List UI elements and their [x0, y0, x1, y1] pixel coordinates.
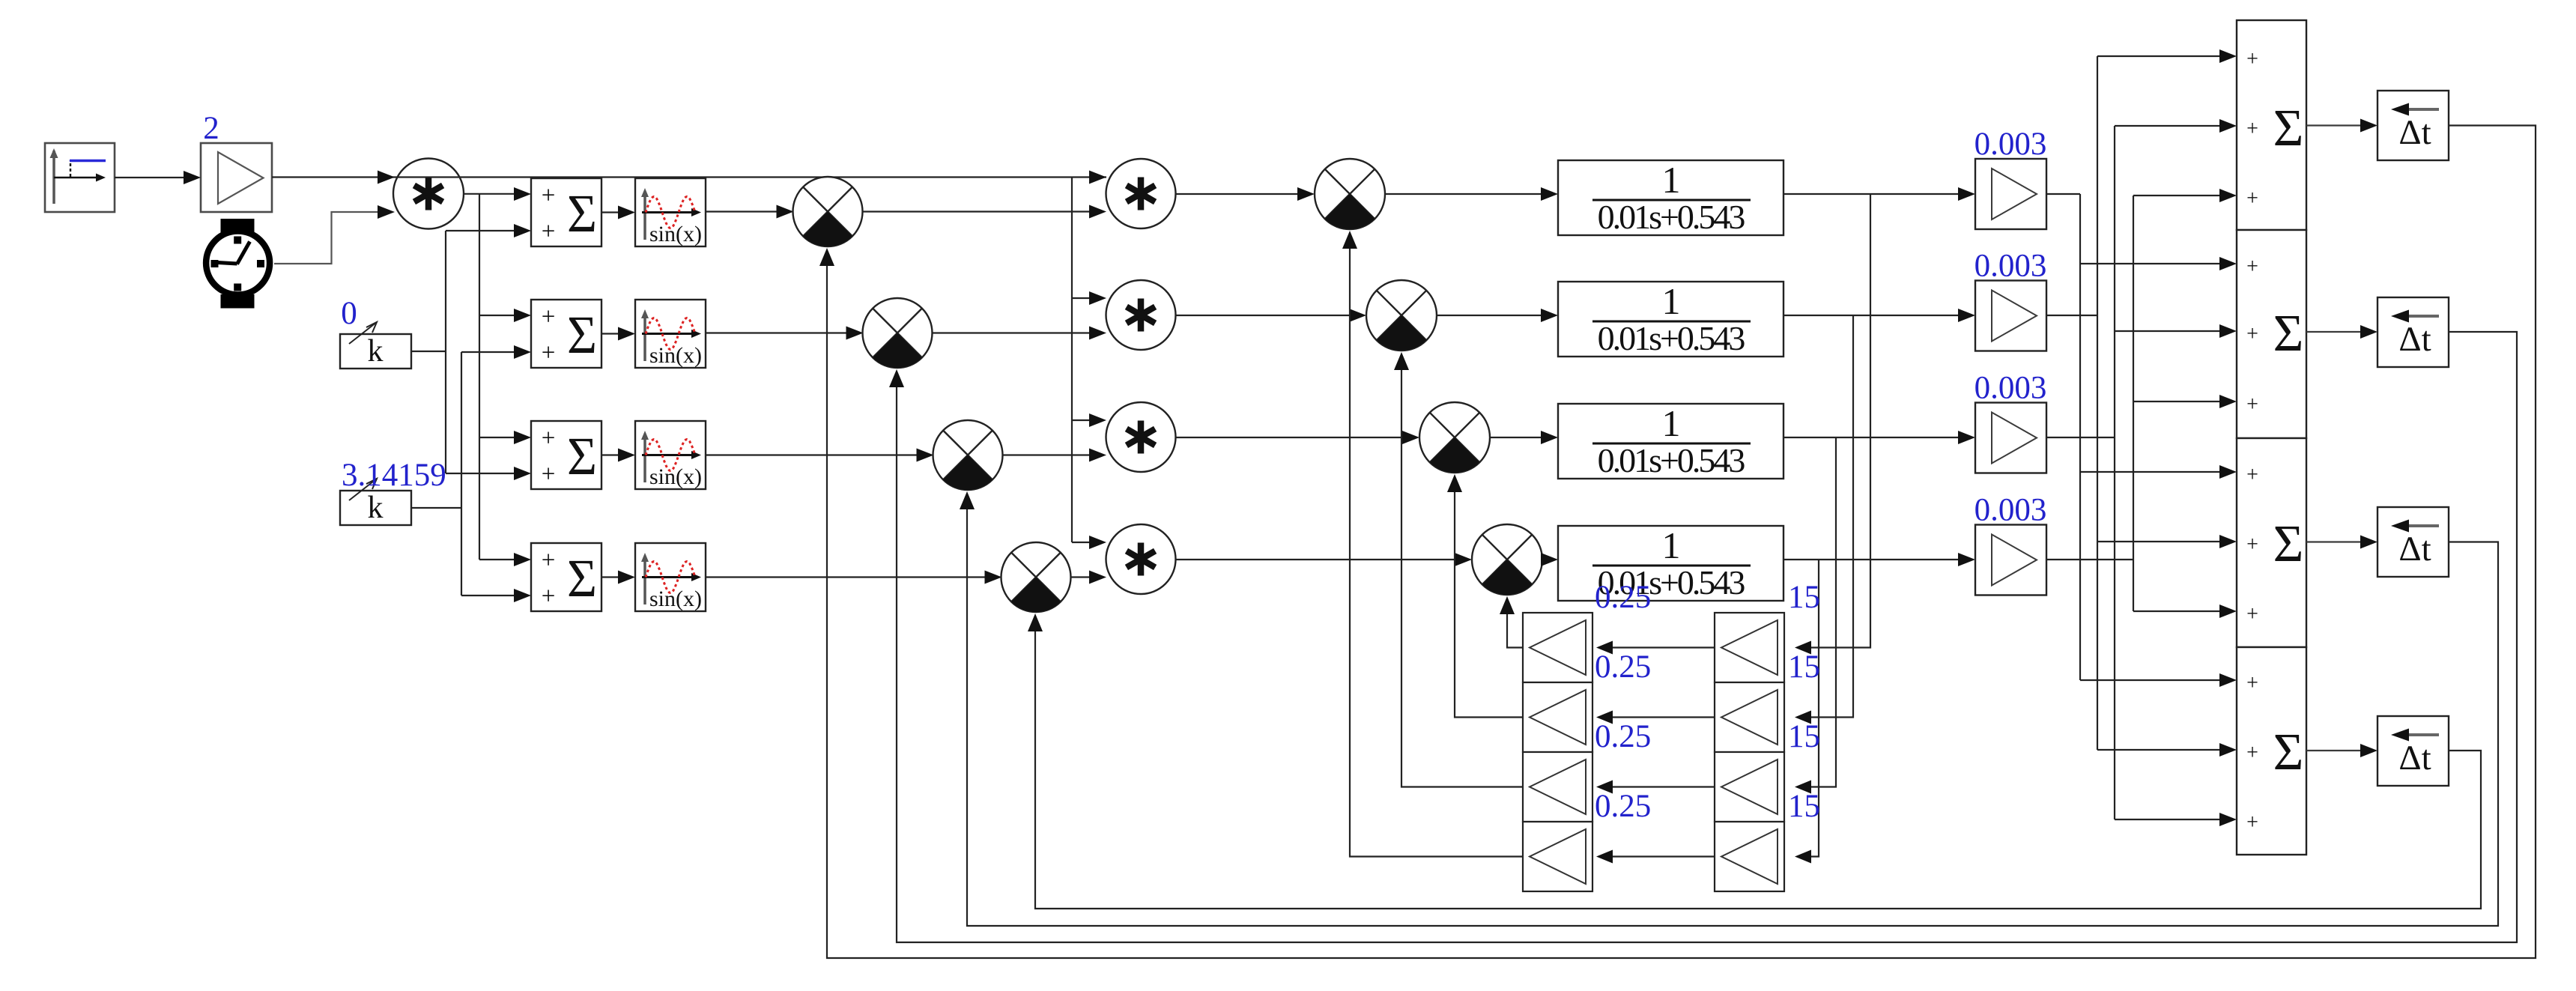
wire K2 constant bus	[411, 224, 531, 480]
delta-t block DT1	[2378, 91, 2449, 160]
svg-text:+: +	[542, 182, 556, 209]
step source block	[45, 143, 115, 212]
wire sine to product P4	[706, 571, 1002, 584]
wire H4 to gain F4	[1596, 850, 1715, 864]
product circle P3	[933, 420, 1003, 490]
svg-text:k: k	[368, 334, 384, 369]
svg-text:+: +	[542, 218, 556, 245]
multiplier circle M1	[1106, 159, 1176, 228]
wire G4 distribution bus	[2046, 189, 2237, 618]
svg-text:0.003: 0.003	[1975, 127, 2047, 162]
wire top bus branches to product circles	[1072, 178, 1106, 550]
wire SS2 to DT2	[2306, 325, 2378, 339]
wire F2 to product Q3	[1447, 474, 1523, 718]
svg-text:+: +	[2246, 118, 2258, 141]
label 0.25 for F4	[1595, 789, 1651, 824]
label 0	[341, 296, 357, 331]
label 3.14159	[342, 458, 446, 493]
wire SS4 to DT4	[2306, 744, 2378, 757]
gain block F4 value 0.25	[1523, 822, 1592, 891]
label 0.25 for F1	[1595, 580, 1651, 615]
label 15 for H4	[1788, 789, 1820, 824]
gain block G2 value 0.003	[1975, 281, 2046, 351]
svg-text:Σ: Σ	[2273, 724, 2304, 781]
svg-text:Σ: Σ	[567, 305, 597, 365]
wire P4 to multiplier M4	[1071, 571, 1107, 584]
wire H2 to gain F2	[1596, 711, 1715, 724]
wire DT4 feedback to P4	[1028, 613, 2481, 909]
svg-text:sin(x): sin(x)	[649, 343, 702, 368]
svg-text:+: +	[2246, 187, 2258, 210]
wire TF1 feedback to gain H1	[1795, 194, 1870, 655]
svg-text:0.01s+0.543: 0.01s+0.543	[1598, 319, 1745, 357]
svg-text:15: 15	[1788, 649, 1820, 685]
wire sine to product P1	[706, 205, 794, 219]
gain block F2 value 0.25	[1523, 682, 1592, 752]
wire F4 to product Q1	[1342, 231, 1523, 857]
sine block SIN4	[635, 543, 706, 611]
product circle P4	[1001, 542, 1071, 612]
gain block G4 value 0.003	[1975, 525, 2046, 595]
label 15 for H2	[1788, 649, 1820, 685]
label 15 for H1	[1788, 580, 1820, 615]
gain block H3 value 15	[1715, 752, 1784, 822]
label 0.25 for F2	[1595, 649, 1651, 685]
svg-text:+: +	[2246, 811, 2258, 834]
label 0.25 for F3	[1595, 719, 1651, 754]
multiplier circle U1	[393, 159, 464, 229]
svg-text:15: 15	[1788, 580, 1820, 615]
svg-text:sin(x): sin(x)	[649, 464, 702, 489]
svg-text:+: +	[2246, 533, 2258, 557]
svg-text:+: +	[2246, 742, 2258, 765]
wire TF4 feedback to gain H4	[1795, 560, 1819, 864]
gain block G1 value 0.003	[1975, 159, 2046, 229]
svg-text:Σ: Σ	[2273, 100, 2304, 157]
wire H3 to gain F3	[1596, 781, 1715, 794]
wire U1 output bus to sum blocks	[464, 187, 531, 566]
wire step to gain	[115, 171, 201, 184]
product circle Q3	[1419, 402, 1490, 473]
wire G2 distribution bus	[2046, 49, 2237, 757]
wire F3 to product Q2	[1394, 352, 1523, 787]
wire SS1 to DT1	[2306, 119, 2378, 133]
svg-text:0: 0	[341, 296, 357, 331]
wire K3 constant bus	[411, 345, 531, 602]
svg-text:Σ: Σ	[567, 548, 597, 608]
svg-text:0.003: 0.003	[1975, 249, 2047, 284]
wire clock to U1	[274, 205, 395, 264]
wire A1 input arrow	[1089, 171, 1106, 184]
big sum block SS2	[2237, 230, 2306, 438]
delta-t block DT2	[2378, 297, 2449, 367]
svg-text:15: 15	[1788, 719, 1820, 754]
label 0.003 for G2	[1975, 249, 2047, 284]
wire G1 distribution bus	[2046, 194, 2237, 687]
svg-text:0.01s+0.543: 0.01s+0.543	[1598, 198, 1745, 236]
wire TF4 to gain G4	[1783, 553, 1975, 566]
big sum block SS1	[2237, 20, 2306, 230]
clock block	[206, 219, 270, 309]
wire TF2 feedback to gain H2	[1795, 315, 1853, 724]
svg-text:0.01s+0.543: 0.01s+0.543	[1598, 441, 1745, 479]
transfer function block TF4	[1558, 524, 1783, 601]
wire S4 to sine	[601, 571, 635, 584]
svg-text:+: +	[2246, 323, 2258, 346]
svg-text:3.14159: 3.14159	[342, 458, 446, 493]
wire SS3 to DT3	[2306, 536, 2378, 549]
transfer function block TF2	[1558, 280, 1783, 357]
svg-text:0.25: 0.25	[1595, 789, 1651, 824]
wire TF2 to gain G2	[1783, 309, 1975, 322]
svg-text:sin(x): sin(x)	[649, 587, 702, 611]
label 0.003 for G3	[1975, 371, 2047, 406]
svg-text:Σ: Σ	[567, 184, 597, 243]
svg-text:0.25: 0.25	[1595, 719, 1651, 754]
svg-text:+: +	[542, 547, 556, 574]
big sum block SS3	[2237, 438, 2306, 647]
svg-text:Δt: Δt	[2398, 739, 2431, 778]
svg-text:+: +	[542, 339, 556, 366]
svg-text:Σ: Σ	[2273, 515, 2304, 573]
svg-text:+: +	[2246, 603, 2258, 626]
svg-text:Σ: Σ	[567, 426, 597, 486]
svg-text:Δt: Δt	[2398, 530, 2431, 569]
wire Q3 to transfer function TF3	[1490, 431, 1558, 444]
svg-text:+: +	[2246, 672, 2258, 695]
svg-text:+: +	[2246, 255, 2258, 279]
sum block S3	[531, 421, 601, 489]
gain block H1 value 15	[1715, 613, 1784, 682]
svg-text:sin(x): sin(x)	[649, 222, 702, 246]
gain block G3 value 0.003	[1975, 403, 2046, 473]
constant block K2 value 0	[340, 322, 411, 369]
big sum block SS4	[2237, 647, 2306, 855]
sine block SIN1	[635, 178, 706, 246]
sum block S2	[531, 300, 601, 368]
product circle Q2	[1366, 280, 1437, 351]
svg-text:1: 1	[1662, 280, 1681, 322]
svg-text:+: +	[542, 303, 556, 330]
sum block S1	[531, 178, 601, 246]
wire S2 to sine	[601, 327, 635, 341]
delta-t block DT3	[2378, 507, 2449, 577]
svg-text:+: +	[542, 583, 556, 610]
wire S3 to sine	[601, 449, 635, 462]
svg-text:+: +	[542, 461, 556, 488]
wire TF3 feedback to gain H3	[1795, 437, 1836, 794]
wire S1 to sine	[601, 206, 635, 219]
wire sine to product P3	[706, 449, 934, 462]
svg-text:2: 2	[203, 111, 219, 146]
wire Q1 to transfer function TF1	[1385, 187, 1558, 201]
transfer function block TF1	[1558, 159, 1783, 236]
gain block H2 value 15	[1715, 682, 1784, 752]
label 0.003 for G4	[1975, 493, 2047, 528]
wire Q4 to transfer function TF4	[1541, 553, 1558, 566]
product circle Q4	[1472, 524, 1542, 595]
label 15 for H3	[1788, 719, 1820, 754]
wire Q2 to transfer function TF2	[1437, 309, 1558, 322]
multiplier circle M4	[1106, 524, 1176, 594]
wire G3 distribution bus	[2046, 119, 2237, 826]
gain block F1 value 0.25	[1523, 613, 1592, 682]
product circle P2	[863, 298, 933, 368]
gain block H4 value 15	[1715, 822, 1784, 891]
wire DT1 feedback to P1	[819, 126, 2536, 959]
wire DT2 feedback to P2	[889, 332, 2517, 942]
svg-text:Σ: Σ	[2273, 305, 2304, 363]
wire P2 to multiplier M2	[933, 327, 1107, 340]
wire P1 to multiplier M1	[863, 205, 1107, 219]
wire P3 to multiplier M3	[1003, 449, 1107, 462]
product circle P1	[793, 177, 863, 246]
svg-text:0.25: 0.25	[1595, 580, 1651, 615]
svg-text:1: 1	[1662, 159, 1681, 201]
svg-text:0.003: 0.003	[1975, 493, 2047, 528]
constant block K3 value 3.14159	[340, 479, 411, 525]
sum block S4	[531, 543, 601, 611]
sine block SIN2	[635, 300, 706, 368]
svg-text:k: k	[368, 491, 384, 525]
svg-text:15: 15	[1788, 789, 1820, 824]
svg-text:+: +	[2246, 464, 2258, 487]
svg-text:Δt: Δt	[2398, 320, 2431, 359]
svg-text:+: +	[542, 425, 556, 452]
svg-text:Δt: Δt	[2398, 113, 2431, 152]
multiplier circle M3	[1106, 402, 1176, 472]
product circle Q1	[1315, 159, 1385, 229]
wire M4 to product Q4	[1176, 553, 1473, 566]
wire H1 to gain F1	[1596, 641, 1715, 655]
wire F1 to product Q4	[1500, 596, 1523, 648]
transfer function block TF3	[1558, 402, 1783, 479]
sine block SIN3	[635, 421, 706, 489]
wire M2 to product Q2	[1176, 309, 1367, 322]
svg-text:0.25: 0.25	[1595, 649, 1651, 685]
gain block F3 value 0.25	[1523, 752, 1592, 822]
svg-text:1: 1	[1662, 524, 1681, 566]
wire DT3 feedback to P3	[960, 491, 2498, 926]
multiplier circle M2	[1106, 280, 1176, 350]
svg-text:+: +	[2246, 48, 2258, 71]
label 2	[203, 111, 219, 146]
wire sine to product P2	[706, 327, 864, 340]
wire TF1 to gain G1	[1783, 187, 1975, 201]
wire gain output top bus	[272, 171, 1106, 184]
wire TF3 to gain G3	[1783, 431, 1975, 444]
gain block K1 value 2	[201, 143, 272, 212]
svg-text:0.003: 0.003	[1975, 371, 2047, 406]
svg-text:1: 1	[1662, 402, 1681, 444]
label 0.003 for G1	[1975, 127, 2047, 162]
svg-text:+: +	[2246, 393, 2258, 416]
wire M3 to product Q3	[1176, 431, 1420, 444]
delta-t block DT4	[2378, 716, 2449, 786]
wire M1 to product Q1	[1176, 187, 1315, 201]
